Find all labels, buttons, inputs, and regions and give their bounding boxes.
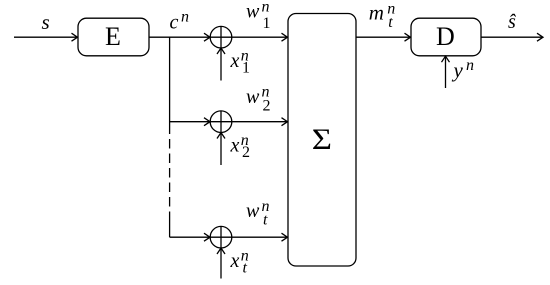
adder A1	[210, 26, 232, 48]
svg-text:2: 2	[242, 144, 250, 161]
svg-text:x: x	[230, 134, 240, 156]
wire xt input arrow	[217, 248, 225, 279]
svg-text:t: t	[243, 260, 248, 277]
svg-text:s: s	[42, 10, 50, 34]
decoder D	[411, 18, 481, 56]
combiner Sigma	[288, 14, 356, 267]
wire x2 input arrow	[217, 133, 225, 166]
svg-text:c: c	[170, 12, 179, 34]
label w_1^n	[246, 0, 271, 32]
wire adder2 to sigma with arrowhead	[232, 118, 288, 126]
label x_1^n	[230, 48, 251, 77]
label x_2^n	[230, 132, 251, 161]
svg-text:ŝ: ŝ	[508, 11, 516, 33]
wire branch2 to adder2 with arrowhead	[170, 118, 210, 126]
wire branch3 to adder3 with arrowhead	[170, 233, 210, 241]
svg-text:Σ: Σ	[312, 122, 332, 155]
label m_t^n	[369, 1, 396, 31]
label s	[42, 10, 50, 34]
wire adder3 to sigma with arrowhead	[232, 233, 288, 241]
svg-text:t: t	[388, 14, 393, 31]
label w_2^n	[246, 84, 271, 115]
svg-text:m: m	[369, 1, 384, 25]
svg-text:1: 1	[263, 15, 271, 32]
svg-text:n: n	[466, 57, 474, 74]
svg-text:E: E	[105, 22, 121, 51]
svg-text:2: 2	[263, 98, 271, 115]
label x_t^n	[230, 248, 249, 277]
wire y^n input arrow	[442, 56, 450, 88]
svg-text:x: x	[230, 250, 240, 272]
wire x1 input arrow	[217, 48, 225, 81]
label y^n	[452, 57, 475, 82]
wire adder1 to sigma with arrowhead	[232, 33, 288, 41]
svg-text:y: y	[452, 58, 464, 82]
svg-text:n: n	[181, 9, 189, 26]
adder A3	[210, 226, 232, 248]
encoder E	[78, 18, 149, 56]
svg-text:1: 1	[242, 60, 250, 77]
svg-text:x: x	[230, 50, 240, 72]
wire branch vertical from c^n node	[169, 37, 171, 237]
svg-text:w: w	[246, 86, 260, 108]
wire input s arrow	[14, 33, 78, 41]
label w_t^n	[246, 198, 270, 229]
svg-text:D: D	[436, 22, 455, 51]
svg-text:w: w	[246, 0, 260, 22]
label s-hat	[508, 11, 516, 33]
wire E to adder1 with arrowhead	[149, 33, 210, 41]
svg-text:w: w	[246, 200, 260, 222]
adder A2	[210, 111, 232, 133]
wire sigma to D with arrowhead	[356, 33, 411, 41]
svg-text:t: t	[263, 212, 268, 229]
node c^n	[170, 9, 190, 34]
svg-text:n: n	[262, 0, 270, 16]
wire output s-hat arrow	[481, 33, 543, 41]
